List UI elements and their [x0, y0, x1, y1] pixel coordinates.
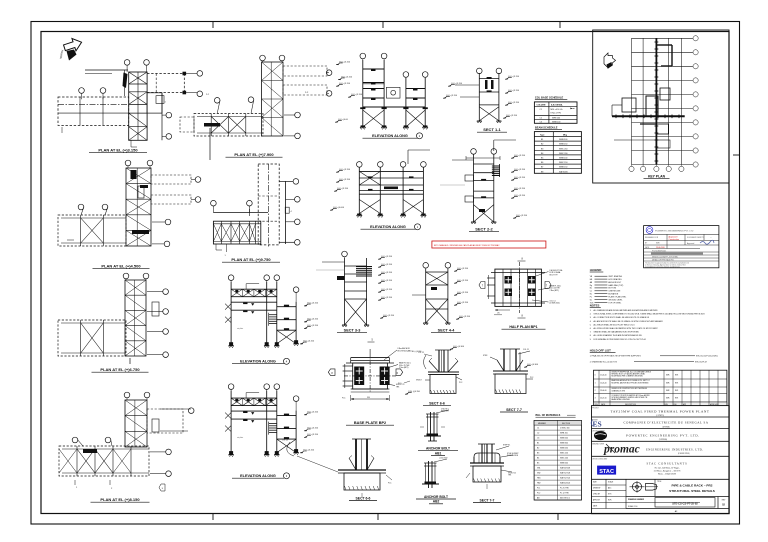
svg-text:170: 170: [497, 313, 500, 315]
svg-text:ISA 90x90: ISA 90x90: [559, 170, 568, 173]
svg-text:ANCHOR BOLT: ANCHOR BOLT: [608, 281, 622, 284]
svg-text:LEGEND: LEGEND: [590, 268, 602, 272]
svg-text:SENDOU 125 MW PP - STR STEEL: SENDOU 125 MW PP - STR STEEL: [652, 257, 678, 259]
svg-text:DRWN BY: DRWN BY: [593, 488, 601, 490]
svg-text:ISMB 200: ISMB 200: [552, 121, 560, 123]
svg-text:EL (+)3.150: EL (+)3.150: [308, 319, 319, 321]
section 7-7 detail: [483, 349, 539, 412]
svg-text:COL BASE SCHEDULE: COL BASE SCHEDULE: [535, 96, 564, 100]
svg-text:CL: CL: [590, 291, 592, 293]
svg-text:ISMB 200: ISMB 200: [560, 438, 568, 440]
section 2-2: [440, 140, 528, 232]
svg-text:(2 ISMC 300): (2 ISMC 300): [550, 303, 560, 305]
svg-text:1: 1: [595, 383, 596, 385]
svg-text:COL C3: COL C3: [282, 440, 288, 442]
north arrow symbol: [62, 36, 83, 54]
svg-text:TITLE: TITLE: [657, 481, 661, 483]
svg-text:ISMC 200: ISMC 200: [560, 458, 568, 460]
bottom info block: [592, 479, 730, 513]
svg-text:A.B. DETAIL: A.B. DETAIL: [551, 104, 563, 107]
plan at EL +3.150: [58, 60, 210, 153]
svg-text:(2 UNITS): (2 UNITS): [656, 414, 664, 417]
svg-text:EL (+)3.150: EL (+)3.150: [308, 428, 319, 430]
svg-text:HAND RAIL (TOP): HAND RAIL (TOP): [608, 284, 623, 287]
svg-text:SECT 2-2: SECT 2-2: [475, 227, 493, 232]
plan at EL +4.500: [58, 160, 201, 269]
svg-text:EL (+)3.150: EL (+)3.150: [308, 412, 319, 414]
plan at EL +8.150: [59, 392, 194, 502]
base plate BP2 detail: [328, 339, 412, 426]
section 4-4: [412, 263, 471, 333]
svg-text:SIZE: SIZE: [593, 482, 597, 484]
svg-text:ISHB 200: ISHB 200: [552, 117, 560, 119]
svg-text:VB2: VB2: [537, 473, 540, 475]
svg-text:ISA 75x75x6: ISA 75x75x6: [560, 477, 570, 480]
approval stamp box: [644, 226, 719, 269]
svg-text:PLAN AT EL (+)6.750: PLAN AT EL (+)6.750: [100, 367, 140, 372]
svg-text:HOLD OFF LIST: HOLD OFF LIST: [590, 349, 611, 353]
svg-text:STRUCTURAL STEEL DETAILS: STRUCTURAL STEEL DETAILS: [669, 489, 715, 493]
svg-text:ISMB 200: ISMB 200: [560, 463, 568, 465]
svg-text:EL (+)3.150: EL (+)3.150: [304, 450, 315, 452]
svg-text:COLUMN: COLUMN: [537, 105, 546, 107]
svg-text:23-06-2010: 23-06-2010: [656, 247, 665, 249]
svg-text:1. FINAL BOLTS OF PR RACK TIE: 1. FINAL BOLTS OF PR RACK TIE UP WITH PI…: [590, 355, 642, 358]
svg-text:DRAWING NUMBER: DRAWING NUMBER: [628, 498, 645, 501]
svg-text:AB1: AB1: [435, 451, 442, 455]
svg-text:2 ISMC 300: 2 ISMC 300: [560, 428, 570, 430]
svg-text:PL1: PL1: [537, 488, 540, 490]
svg-text:8 THK GUSSET: 8 THK GUSSET: [507, 453, 519, 455]
svg-text:PLAN AT EL (+)4.500: PLAN AT EL (+)4.500: [101, 264, 141, 269]
svg-text:ISA 65x65x6: ISA 65x65x6: [560, 482, 570, 485]
svg-text:C1: C1: [537, 428, 539, 430]
title block frame: [592, 406, 730, 514]
svg-text:(VENDOR): (VENDOR): [659, 438, 668, 441]
svg-text:FOR GENERAL NOTES REFER DRG NO: FOR GENERAL NOTES REFER DRG NO. STE-CS-C…: [594, 338, 646, 341]
CES owner row: [591, 419, 708, 428]
svg-text:STAC CONSULTANTS: STAC CONSULTANTS: [646, 462, 687, 466]
svg-text:3: 3: [595, 398, 596, 400]
svg-text:B8: B8: [541, 171, 543, 173]
svg-text:BOLTS M24 (AB1): BOLTS M24 (AB1): [398, 349, 412, 352]
svg-text:HALF PLAN BP1: HALF PLAN BP1: [509, 325, 537, 329]
svg-text:BL: BL: [590, 288, 592, 290]
section flags below plan EL8.150: [159, 484, 165, 491]
svg-text:MEMBER: MEMBER: [538, 423, 547, 425]
pedestal detail with cap channel: [466, 444, 519, 503]
powertec row: [592, 429, 700, 441]
svg-text:PTC/VDR/DRG/025: PTC/VDR/DRG/025: [652, 251, 666, 253]
svg-text:KEY PLAN: KEY PLAN: [648, 175, 666, 179]
svg-text:STIFF: STIFF: [483, 355, 487, 357]
svg-text:VB1: VB1: [537, 468, 540, 470]
fold tick marks: [212, 22, 214, 29]
svg-text:ALL CONNECTION BOLTS SHALL BE: ALL CONNECTION BOLTS SHALL BE HSFG BOLTS…: [594, 316, 650, 319]
svg-text:ISMB 250: ISMB 250: [560, 448, 568, 450]
svg-text:PL 25 THK: PL 25 THK: [560, 488, 569, 490]
svg-text:C3: C3: [540, 121, 542, 123]
svg-text:ALL LEVELS MARKED THUS ARE IN: ALL LEVELS MARKED THUS ARE IN METERS ABO…: [594, 334, 643, 337]
svg-text:CHKD BY: CHKD BY: [593, 494, 601, 496]
svg-text:ELEVATION ALONG: ELEVATION ALONG: [240, 360, 276, 364]
hold off list: [590, 349, 718, 364]
svg-text:POWERTEC ENGINEERING PVT. L: POWERTEC ENGINEERING PVT. LTD.: [626, 434, 700, 438]
svg-text:ELEVATION: ELEVATION: [608, 293, 619, 296]
svg-text:23-06-10: 23-06-10: [600, 390, 606, 392]
svg-text:—: —: [710, 237, 712, 239]
svg-text:WASHER: WASHER: [441, 410, 449, 413]
svg-text:ANCHOR BOLT: ANCHOR BOLT: [424, 495, 448, 499]
svg-text:ISMC 250: ISMC 250: [560, 453, 568, 455]
base detail SECT 6-6 (bottom centre-left): [282, 439, 392, 501]
section 6-6 detail: [416, 346, 465, 406]
svg-text:STE-CS-CS-PT-25-02: STE-CS-CS-PT-25-02: [672, 501, 698, 505]
svg-text:STIFF PL: STIFF PL: [503, 445, 510, 447]
svg-text:ALL ANCHOR BOLTS SHALL BE OF G: ALL ANCHOR BOLTS SHALL BE OF GRADE 4.6 W…: [594, 320, 664, 323]
bill of materials table: [534, 414, 581, 500]
svg-text:ENGINEERING INDUSTRIES. LTD.: ENGINEERING INDUSTRIES. LTD.: [646, 448, 703, 452]
svg-text:SCALE 1:50: SCALE 1:50: [628, 505, 637, 508]
svg-text:STE-CS-CS-PT-25-03 (R1): STE-CS-CS-PT-25-03 (R1): [696, 356, 718, 358]
svg-text:2. GRATING AT EL (+) 4.500 TO: 2. GRATING AT EL (+) 4.500 TOS: [590, 360, 618, 363]
elevation along 2: [335, 53, 428, 139]
svg-text:TOP OF STEEL: TOP OF STEEL: [608, 302, 621, 304]
svg-text:GROUND LEVEL: GROUND LEVEL: [608, 299, 622, 301]
svg-text:ISA 75x75x8: ISA 75x75x8: [560, 472, 570, 475]
svg-text:SECTION: SECTION: [562, 423, 571, 425]
svg-text:ELEVATION ALONG: ELEVATION ALONG: [370, 225, 406, 229]
svg-text:EL (+)3.150: EL (+)3.150: [308, 434, 319, 436]
svg-text:M24 GR 4.6: M24 GR 4.6: [560, 498, 570, 500]
svg-text:BP2 CHANGED / REVISED AS CAN P: BP2 CHANGED / REVISED AS CAN PLAN AS BUI…: [434, 244, 500, 247]
svg-text:OWNER: OWNER: [592, 419, 597, 421]
svg-text:PIPE & CABLE RACK – PR2: PIPE & CABLE RACK – PR2: [672, 484, 713, 488]
svg-text:C2: C2: [537, 433, 539, 435]
svg-text:COL C1: COL C1: [523, 349, 529, 351]
elevation along 3: [225, 384, 319, 479]
svg-text:B2: B2: [537, 448, 539, 450]
svg-text:Phone – 26648 50500: Phone – 26648 50500: [658, 474, 676, 476]
svg-text:GROUT: GROUT: [416, 380, 422, 382]
svg-text:PL2: PL2: [537, 493, 540, 495]
plan at EL +9.750: [211, 164, 301, 262]
svg-text:LOCK NUT: LOCK NUT: [439, 458, 448, 460]
notes list: [590, 304, 705, 341]
svg-text:GROUT 25: GROUT 25: [508, 473, 516, 475]
svg-text:CENTRE LINE: CENTRE LINE: [608, 291, 621, 293]
svg-text:PLAN AT EL (+)7.900: PLAN AT EL (+)7.900: [234, 152, 274, 157]
red revision cloud note: [432, 241, 546, 248]
svg-text:BOLT TYP.: BOLT TYP.: [550, 274, 559, 276]
svg-text:DOCUMENT IDENTITY: DOCUMENT IDENTITY: [687, 237, 705, 239]
svg-text:Approved: Approved: [687, 242, 694, 245]
svg-text:B5: B5: [537, 463, 539, 465]
svg-text:ISSUED FOR CONSTRUCTION. BP2 T: ISSUED FOR CONSTRUCTION. BP2 THICKNESS: [612, 388, 647, 390]
svg-text:2: 2: [595, 390, 596, 392]
svg-text:2 Nos (BP2): 2 Nos (BP2): [399, 367, 409, 369]
svg-text:STRUCTURAL STEEL CONFORMING TO: STRUCTURAL STEEL CONFORMING TO IS 2062 G…: [594, 313, 705, 316]
section 1-1: [443, 68, 520, 132]
svg-text:BEAM SCHEDULE: BEAM SCHEDULE: [535, 125, 558, 129]
svg-text:(FABRICATOR): (FABRICATOR): [678, 452, 690, 455]
svg-text:GL: GL: [590, 299, 592, 301]
svg-text:NOTES: NOTES: [590, 304, 600, 308]
revision table: [594, 370, 727, 406]
svg-text:VERT. BRACING: VERT. BRACING: [608, 275, 622, 278]
svg-text:C2: C2: [540, 117, 542, 119]
svg-text:Construction: Construction: [669, 238, 680, 241]
svg-text:PL BOTH SIDE: PL BOTH SIDE: [507, 455, 518, 457]
svg-text:GRATING SHALL BE GALVANISED EL: GRATING SHALL BE GALVANISED ELECTROFORGE…: [594, 331, 640, 334]
svg-text:PROJECT: PROJECT: [592, 408, 599, 410]
svg-text:ELEVATION ALONG: ELEVATION ALONG: [240, 474, 276, 478]
elevation along 1: [330, 150, 430, 230]
STAC consultants row: [592, 458, 687, 476]
svg-text:Rg: Rg: [590, 285, 592, 287]
svg-text:BILL OF MATERIALS: BILL OF MATERIALS: [536, 414, 561, 417]
svg-text:RELEASED FOR: RELEASED FOR: [645, 236, 659, 239]
svg-text:PL 12 THK: PL 12 THK: [560, 493, 569, 495]
svg-text:21-04-10: 21-04-10: [600, 374, 606, 376]
svg-text:C1: C1: [540, 109, 542, 111]
svg-text:(OWNER): (OWNER): [662, 425, 670, 428]
beam schedule table: [534, 125, 581, 173]
svg-text:ELEVATION ALONG: ELEVATION ALONG: [372, 134, 408, 138]
svg-text:B4: B4: [537, 458, 539, 460]
svg-text:C3: C3: [537, 438, 539, 440]
svg-text:ALL STEEL WORK SHALL BE PAINTE: ALL STEEL WORK SHALL BE PAINTED WITH TWO…: [594, 327, 659, 330]
svg-text:PLAN AT EL (+)9.750: PLAN AT EL (+)9.750: [231, 257, 271, 262]
svg-text:TAY25MW COAL FIRED THERMAL: TAY25MW COAL FIRED THERMAL POWER PLANT: [611, 410, 710, 414]
svg-text:M24 x 450 LG.: M24 x 450 LG.: [551, 109, 564, 111]
svg-text:ALL DIMENSIONS ARE IN MILLIMET: ALL DIMENSIONS ARE IN MILLIMETERS AND EL…: [594, 309, 659, 312]
svg-text:EL (+)3.150: EL (+)3.150: [340, 62, 351, 64]
svg-text:STAC: STAC: [599, 469, 614, 475]
svg-text:SECT 3-3: SECT 3-3: [344, 329, 361, 333]
svg-text:3rd Phase, Bangalore – 560 078: 3rd Phase, Bangalore – 560 078: [654, 470, 681, 473]
svg-text:PLAN AT EL (+)8.150: PLAN AT EL (+)8.150: [100, 497, 140, 502]
legend list: [590, 268, 627, 304]
svg-text:HOR. BRACING: HOR. BRACING: [608, 278, 622, 281]
svg-text:EL (+)3.150: EL (+)3.150: [308, 325, 319, 327]
svg-text:EL (+)0.300: EL (+)0.300: [412, 351, 421, 353]
svg-text:COMPAGNIE D’ELECTRICITE DU: COMPAGNIE D’ELECTRICITE DU SENEGAL SA: [624, 421, 709, 425]
anchor bolt AB1 detail: [418, 409, 458, 456]
svg-text:PL: PL: [590, 296, 592, 298]
svg-text:EL (+)3.150: EL (+)3.150: [308, 303, 319, 305]
svg-text:SECT 1-1: SECT 1-1: [483, 127, 501, 132]
svg-text:ALL WELDS SHALL BE 6mm FILLET: ALL WELDS SHALL BE 6mm FILLET WELD U.N.O…: [594, 323, 636, 326]
svg-text:PLATE / PLAN LEVEL: PLATE / PLAN LEVEL: [608, 295, 626, 298]
svg-text:2 Nos (BP1): 2 Nos (BP1): [550, 290, 560, 292]
key plan box: [593, 30, 729, 183]
svg-text:promac: promac: [603, 443, 640, 455]
svg-text:SECT 6-6: SECT 6-6: [429, 402, 445, 406]
svg-text:SECT 4-4: SECT 4-4: [438, 329, 456, 333]
section 3-3: [316, 251, 395, 333]
svg-text:8 Nos (TYP): 8 Nos (TYP): [551, 113, 562, 115]
promac row: [592, 443, 703, 456]
plan at EL +7.900: [180, 55, 332, 160]
half plan BP1: [479, 258, 563, 330]
svg-text:SECT 7-7: SECT 7-7: [480, 498, 495, 502]
svg-text:EL (+)3.150: EL (+)3.150: [304, 341, 315, 343]
plan at EL +6.750: [58, 273, 168, 372]
svg-text:HB1: HB1: [537, 478, 541, 480]
svg-text:No 241, 2nd Main, J.P Nagar,: No 241, 2nd Main, J.P Nagar,: [655, 467, 680, 470]
svg-text:12-05-10: 12-05-10: [600, 383, 606, 385]
svg-text:B1: B1: [537, 443, 539, 445]
svg-text:BOTTOM: BOTTOM: [608, 288, 616, 290]
svg-text:PLAN AT EL (+)3.150: PLAN AT EL (+)3.150: [98, 148, 138, 153]
svg-text:STE-CS-PT-07: STE-CS-PT-07: [695, 361, 707, 363]
svg-text:SECT 6-6: SECT 6-6: [356, 496, 371, 500]
inner border frame: [41, 32, 729, 514]
svg-text:BASE PLATE BP2: BASE PLATE BP2: [354, 421, 386, 425]
svg-text:EL: EL: [590, 294, 592, 296]
svg-text:ISA 90x90x8: ISA 90x90x8: [560, 467, 570, 470]
svg-text:B3: B3: [537, 453, 539, 455]
svg-text:HB2: HB2: [537, 483, 541, 485]
anchor bolt AB2 detail: [416, 458, 456, 504]
svg-text:ANCHOR BOLT: ANCHOR BOLT: [426, 447, 450, 451]
svg-text:350: 350: [367, 397, 370, 399]
svg-text:ISMB 300: ISMB 300: [560, 443, 568, 445]
svg-text:SECT 7-7: SECT 7-7: [506, 408, 522, 412]
svg-text:ISHB 200: ISHB 200: [560, 433, 568, 435]
column schedule table: [534, 96, 577, 124]
svg-text:02-07-10: 02-07-10: [600, 398, 606, 400]
svg-text:AB2: AB2: [433, 500, 440, 504]
svg-text:POWERTEC ENGINEERING PVT. LTD: POWERTEC ENGINEERING PVT. LTD: [655, 231, 694, 233]
svg-text:0: 0: [595, 374, 596, 376]
elevation along 4: [225, 275, 319, 364]
